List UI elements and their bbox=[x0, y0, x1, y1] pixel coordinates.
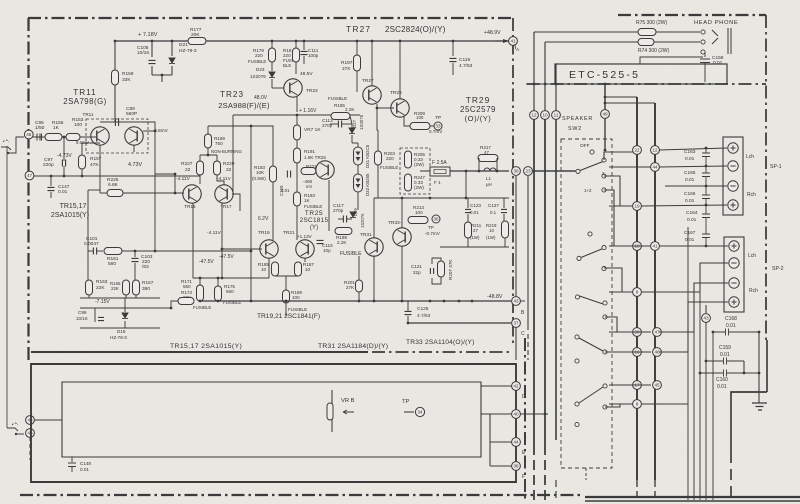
wire R169 bottom to R227 R229 bbox=[207, 148, 209, 155]
wire thin vertical 3 bottom right bbox=[699, 292, 701, 500]
wire heavy bottom edge of amplifier block bbox=[31, 351, 368, 353]
zener diode D19 HZ-78-3 bbox=[124, 308, 126, 312]
terminal SP-2 L- bbox=[729, 258, 739, 268]
capacitor C111 100p bbox=[303, 41, 305, 50]
resistor R229 22 bbox=[214, 161, 221, 175]
capacitor C97 220p bbox=[62, 160, 65, 167]
capacitor C109 0.01 bbox=[287, 171, 290, 178]
resistor R221 bbox=[301, 168, 316, 175]
transistor TR27 bbox=[363, 86, 381, 104]
wire TR33 emitter down bbox=[401, 246, 403, 301]
node 46 right bbox=[653, 348, 662, 357]
node 20 right bbox=[633, 328, 642, 337]
resistor R187 10 bbox=[295, 262, 302, 276]
wire R189 bottom to rail bbox=[285, 300, 288, 303]
wire bus continuations bottom faded bbox=[636, 480, 638, 502]
node 43 right section bbox=[702, 314, 711, 323]
switch pole 5 bbox=[603, 384, 607, 388]
wire diode chain bbox=[351, 124, 353, 128]
zener diode D21 HZ-78-3 bbox=[171, 41, 173, 56]
node 44 E bbox=[512, 438, 521, 447]
terminal SP-2 R+ bbox=[729, 297, 739, 307]
wire node 8 link right and up bbox=[641, 227, 688, 404]
capacitor C119 4.7/63 bbox=[452, 41, 454, 56]
wire drop from output line to lower rail bbox=[465, 171, 467, 198]
node 41 on border at top rail bbox=[495, 40, 508, 42]
resistor R203 220 FUSIBLE bbox=[375, 151, 382, 165]
inductor L1 bbox=[484, 168, 496, 171]
capacitor C105 10/16 from rail bbox=[151, 41, 153, 57]
switch bottom dashed stub bbox=[585, 468, 587, 480]
wire TR33 feeds bbox=[401, 198, 403, 228]
ground symbol bbox=[752, 403, 767, 410]
wire R173 left end elbow to lower rail bbox=[171, 301, 178, 308]
wire R227 R229 bottoms to TR15 TR17 bbox=[199, 175, 201, 184]
node 18 right bbox=[633, 242, 642, 251]
wire C159 right lead drop to C160 row bbox=[743, 361, 745, 373]
wire node 49 down into switch box bbox=[604, 118, 606, 150]
wire heavy bus x=655 bbox=[654, 103, 656, 480]
transistor TR29 driver bbox=[391, 99, 409, 117]
wire long vertical x=251 to rail bbox=[250, 126, 252, 301]
resistor R227 22 bbox=[197, 161, 204, 175]
wire TR17 column down with base tap to TR19 bbox=[221, 203, 223, 278]
wire switch contact links upper bbox=[604, 152, 633, 160]
resistor R225 6.8K bbox=[107, 190, 123, 197]
wire node 46 to inner box bbox=[34, 419, 62, 421]
resistor R163 22K bbox=[86, 280, 93, 295]
capacitor C160 0.01 bbox=[700, 370, 759, 377]
resistor R191 1.8K bbox=[294, 148, 301, 163]
diode pack D33 KB265 bbox=[354, 174, 363, 192]
resistor R175 560 FUSIBLE bbox=[215, 286, 222, 301]
capacitor C95 1/50 electrolytic bbox=[37, 134, 42, 141]
wire bus vertical 2 bbox=[544, 42, 546, 111]
wire TR11 emitter junction bbox=[82, 142, 100, 144]
resistor R195 2.2K bbox=[331, 113, 350, 120]
wire thin vertical 1 bottom right bbox=[687, 404, 689, 500]
resistor R167 390 bbox=[133, 280, 140, 295]
input jack upper bbox=[3, 140, 9, 142]
resistor R171 560 bbox=[197, 285, 204, 301]
resistor R185 10 bbox=[272, 262, 279, 276]
transistor TR11 left half bbox=[91, 127, 109, 145]
dashed box R205 R247 bbox=[400, 148, 430, 194]
node 19 right bbox=[633, 202, 642, 211]
switch pole 1 bbox=[590, 150, 594, 154]
switch pole 4 bbox=[575, 335, 579, 339]
wire mid horizontal from switch to left x=516 column bbox=[515, 176, 517, 297]
terminal SP-1 L+ bbox=[728, 143, 738, 153]
SP-2 terminal block box bbox=[724, 237, 744, 312]
wire emitter join TR19 TR21 bbox=[275, 275, 298, 277]
wire feedback line down to R161 bbox=[140, 122, 155, 251]
border: left dash-dot frame line of main amplifier block bbox=[27, 18, 29, 364]
wire headphone lines bbox=[534, 31, 638, 33]
wire bus vertical 1 from headphone R75 bbox=[533, 32, 535, 111]
resistor R205 0.33 2W bbox=[405, 151, 412, 168]
resistor R211 27 1W bbox=[465, 222, 472, 238]
wire thin vertical 2 bottom right bbox=[693, 332, 695, 500]
resistor R197 27K bbox=[354, 55, 361, 71]
node 47 right bbox=[653, 328, 662, 337]
terminal SP-1 L- bbox=[728, 161, 738, 171]
terminal SP-1 R+ bbox=[728, 200, 738, 210]
node 45 input bbox=[24, 130, 33, 139]
terminal SP-2 R- bbox=[729, 278, 739, 288]
wire jack sleeve down to C158 bbox=[704, 52, 706, 57]
resistor R207 47K bbox=[438, 261, 445, 277]
node 10 bus bbox=[541, 111, 550, 120]
wire horizontal link y=84 under ETC box bbox=[526, 83, 605, 85]
capacitor C89 560P between TR11 bases bbox=[100, 121, 140, 123]
wire TR27 emitter to TR29 base and R203 bbox=[377, 104, 394, 108]
wire input rail y=134 into TR11 base bbox=[33, 136, 96, 138]
ground rail from node 47 bbox=[33, 175, 200, 177]
output rail to node 39 bbox=[450, 170, 509, 172]
diode D27 1S2076 bbox=[349, 128, 355, 133]
switch pole 2 bbox=[588, 232, 592, 236]
wires to SP-1 terminals bbox=[659, 148, 727, 150]
node 12 right bbox=[651, 146, 660, 155]
border: top dash-dot frame of right-hand speaker/headphone section bbox=[618, 14, 766, 16]
wire lower bias rails bbox=[80, 307, 171, 309]
border: right dash-dot frame of headphone section bbox=[765, 15, 767, 340]
wire TR31 feeds bbox=[373, 198, 375, 238]
wire 49 link bbox=[609, 151, 633, 153]
resistor R183 10K 0.5W bbox=[270, 166, 277, 182]
wire output into switch pole 1 bbox=[532, 170, 575, 172]
bottom block outer box heavy border bbox=[31, 364, 516, 482]
resistor R159 33K bbox=[114, 41, 116, 70]
node 8 right bbox=[633, 400, 642, 409]
terminal SP-1 R- bbox=[728, 181, 738, 191]
wire TR23 emitter to +1.16V rail bbox=[296, 97, 298, 112]
wire from sleeve left down to ETC box area bbox=[640, 57, 703, 64]
wire node 48 stub bbox=[29, 437, 31, 460]
rail B -48.8V bbox=[200, 300, 511, 302]
headphone jack symbol bbox=[712, 28, 731, 54]
resistor R177 20K on top rail bbox=[188, 38, 206, 45]
node 38 F bbox=[512, 462, 521, 471]
node 46 bbox=[26, 416, 35, 425]
transistor TR25 bbox=[316, 161, 334, 179]
capacitor C103 220/63 bbox=[134, 251, 136, 257]
potentiometer VR B in bottom block bbox=[331, 390, 333, 432]
switch pole 3 bbox=[575, 295, 579, 299]
capacitor C147 0.01 bbox=[50, 176, 52, 186]
wire rail y=247 right bbox=[440, 246, 509, 248]
resistor R157 47K bbox=[81, 143, 83, 155]
transistor TR33 bbox=[393, 228, 411, 246]
wire caps and resistors to rails bbox=[467, 198, 469, 208]
wire joining C105 D21 bottom bbox=[152, 74, 172, 76]
transistor TR15 bbox=[183, 185, 201, 203]
potentiometer VR7 1K bbox=[294, 125, 301, 140]
resistor R189 100 bbox=[283, 290, 290, 303]
wire TR23 base from D23 bbox=[271, 84, 273, 88]
test point TP 36 -0.7mV bbox=[432, 215, 440, 223]
border: right dash-dot frame lower segment x=525 bbox=[524, 338, 526, 502]
resistor R74 300 2W bbox=[638, 39, 654, 46]
wire TR17 collector elbow bbox=[232, 194, 240, 211]
node 39 and 23 on output line bbox=[512, 167, 521, 176]
wire vertical to ground bbox=[758, 332, 760, 403]
wire heavy bus x=637 bbox=[636, 97, 638, 480]
wire feedback tap to TR15 base line bbox=[155, 174, 175, 193]
capacitor C148 0.01 bbox=[71, 457, 73, 462]
resistor R199 2.2K bbox=[335, 228, 352, 235]
wire R195 to diode column bbox=[350, 116, 352, 124]
wire node 37 column down bbox=[515, 327, 517, 360]
wire switch links to nodes bbox=[609, 166, 651, 168]
wires to SP-2 terminals bbox=[659, 245, 728, 247]
wire R169 top feed bbox=[207, 126, 209, 134]
wire thin vertical 4 bottom right bbox=[705, 322, 707, 500]
node 11 bus bbox=[552, 111, 561, 120]
wire top area rail y=198 bbox=[374, 197, 509, 199]
switch SW2 dashed enclosure bbox=[561, 139, 612, 468]
resistor R181 220 FUSIBLE bbox=[293, 48, 300, 62]
wire node 43 B to bottom right buses bbox=[520, 300, 525, 302]
node 48 bbox=[26, 429, 35, 438]
wire TR11 collectors down bbox=[99, 145, 101, 190]
wire heavy right elbow bbox=[766, 340, 768, 392]
wire verticals TR19 TR21 collectors bbox=[268, 258, 270, 278]
resistor R155 1K bbox=[45, 134, 62, 141]
wire R171 R175 tops joined bbox=[200, 277, 269, 279]
resistor R193 1K FUSIBLE bbox=[294, 192, 301, 206]
diode D23 1S2076 bbox=[269, 72, 275, 77]
wire TR15 collector down to R171 bbox=[193, 203, 200, 278]
diode D29 1S2076 bbox=[350, 212, 356, 217]
transistor TR17 bbox=[215, 185, 233, 203]
transistor TR19 bbox=[260, 240, 278, 258]
border: top dash-dot frame line of main amplifier block bbox=[28, 17, 513, 19]
wire TR25 emitter down to R199 row bbox=[328, 180, 330, 231]
border: bottom dark band edge of next section bbox=[585, 496, 800, 498]
resistor R201 27K bbox=[356, 280, 363, 292]
transistor TR23 bbox=[284, 79, 302, 97]
SP-1 terminal block box bbox=[723, 137, 743, 215]
wire thin vertical 5 bottom right bbox=[712, 332, 714, 500]
node 41 right bbox=[651, 242, 660, 251]
capacitor C115 10p bbox=[317, 240, 324, 243]
ETC-525-5 box bbox=[555, 64, 727, 84]
resistor R219 10 1W bbox=[502, 221, 509, 238]
resistor R247 0.33 2W bbox=[405, 174, 412, 191]
input jack lower bbox=[12, 423, 18, 425]
wire buses below nodes down bbox=[533, 119, 535, 445]
terminal SP-2 L+ bbox=[729, 241, 739, 251]
wire from R153 junction down through C97 R157 bbox=[63, 137, 65, 161]
node 45 right bbox=[653, 381, 662, 390]
resistor R153 100 bbox=[66, 134, 80, 141]
wire +7.18V / +48.9V top supply rail bbox=[115, 40, 509, 42]
node 49 bus bbox=[604, 84, 606, 110]
wire mid column x=297 down bbox=[296, 115, 298, 125]
node 40 bbox=[512, 410, 521, 419]
node 12 bus bbox=[530, 111, 539, 120]
node 9 right bbox=[633, 288, 642, 297]
wire vertical from TR11 collector x=88 down bbox=[87, 190, 89, 280]
transistor TR31 bbox=[365, 238, 383, 256]
wire +1.16V rail bbox=[297, 114, 360, 116]
resistor R169 750 non-burning bbox=[205, 134, 212, 148]
rail C bbox=[408, 322, 511, 324]
bottom block inner box bbox=[62, 382, 481, 457]
wire node 40 out to right bbox=[520, 413, 548, 415]
node 42 D bbox=[512, 382, 521, 391]
wire -7.15V rail bbox=[80, 297, 160, 299]
capacitor C158 0.01 bbox=[700, 59, 710, 63]
border: right dash-dot frame at x=513 of main amplifier block bbox=[512, 18, 514, 345]
headphone jack contacts bbox=[701, 30, 705, 34]
resistor R165 22K bbox=[123, 280, 130, 295]
capacitor C125 4.7/63 bbox=[405, 311, 412, 314]
diode pack D31 KB2C5 bbox=[354, 147, 363, 165]
node 44 right bbox=[651, 163, 660, 172]
border: bottom dash-dot line across page bbox=[20, 494, 580, 496]
node 22 bbox=[633, 146, 642, 155]
resistor R161 560 bbox=[104, 248, 122, 255]
resistor R179 220 FUSIBLE bbox=[269, 48, 276, 62]
wire input shield line left edge bbox=[6, 146, 8, 428]
wire +1.16V feed down to TR19 base bbox=[232, 115, 234, 194]
border dash-dot below ETC box bbox=[527, 83, 766, 85]
node 17 right bbox=[633, 381, 642, 390]
node 16 right bbox=[633, 348, 642, 357]
wire bus vertical 3 to ETC box bbox=[555, 64, 557, 111]
transistor TR11 right half bbox=[125, 127, 143, 145]
transistor TR21 bbox=[296, 240, 314, 258]
wire TR15 TR17 collector bus bbox=[99, 190, 101, 193]
wire inner box right connections bbox=[481, 385, 512, 387]
